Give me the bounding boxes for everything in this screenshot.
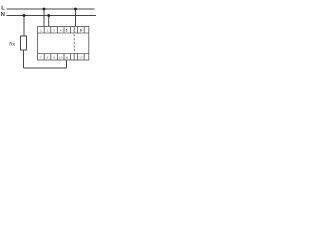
svg-text:1: 1	[40, 28, 42, 32]
svg-text:7: 7	[40, 55, 42, 59]
svg-text:10: 10	[59, 55, 63, 59]
svg-text:3: 3	[53, 28, 55, 32]
svg-text:9: 9	[53, 55, 55, 59]
svg-text:Rx: Rx	[9, 41, 15, 46]
svg-text:L: L	[1, 5, 5, 11]
svg-text:4: 4	[60, 28, 62, 32]
svg-text:5: 5	[66, 28, 68, 32]
svg-text:6: 6	[80, 28, 82, 32]
svg-text:8: 8	[47, 55, 49, 59]
svg-text:2: 2	[47, 28, 49, 32]
svg-text:N: N	[1, 12, 5, 18]
svg-text:11: 11	[65, 55, 68, 59]
svg-text:12: 12	[79, 55, 83, 59]
